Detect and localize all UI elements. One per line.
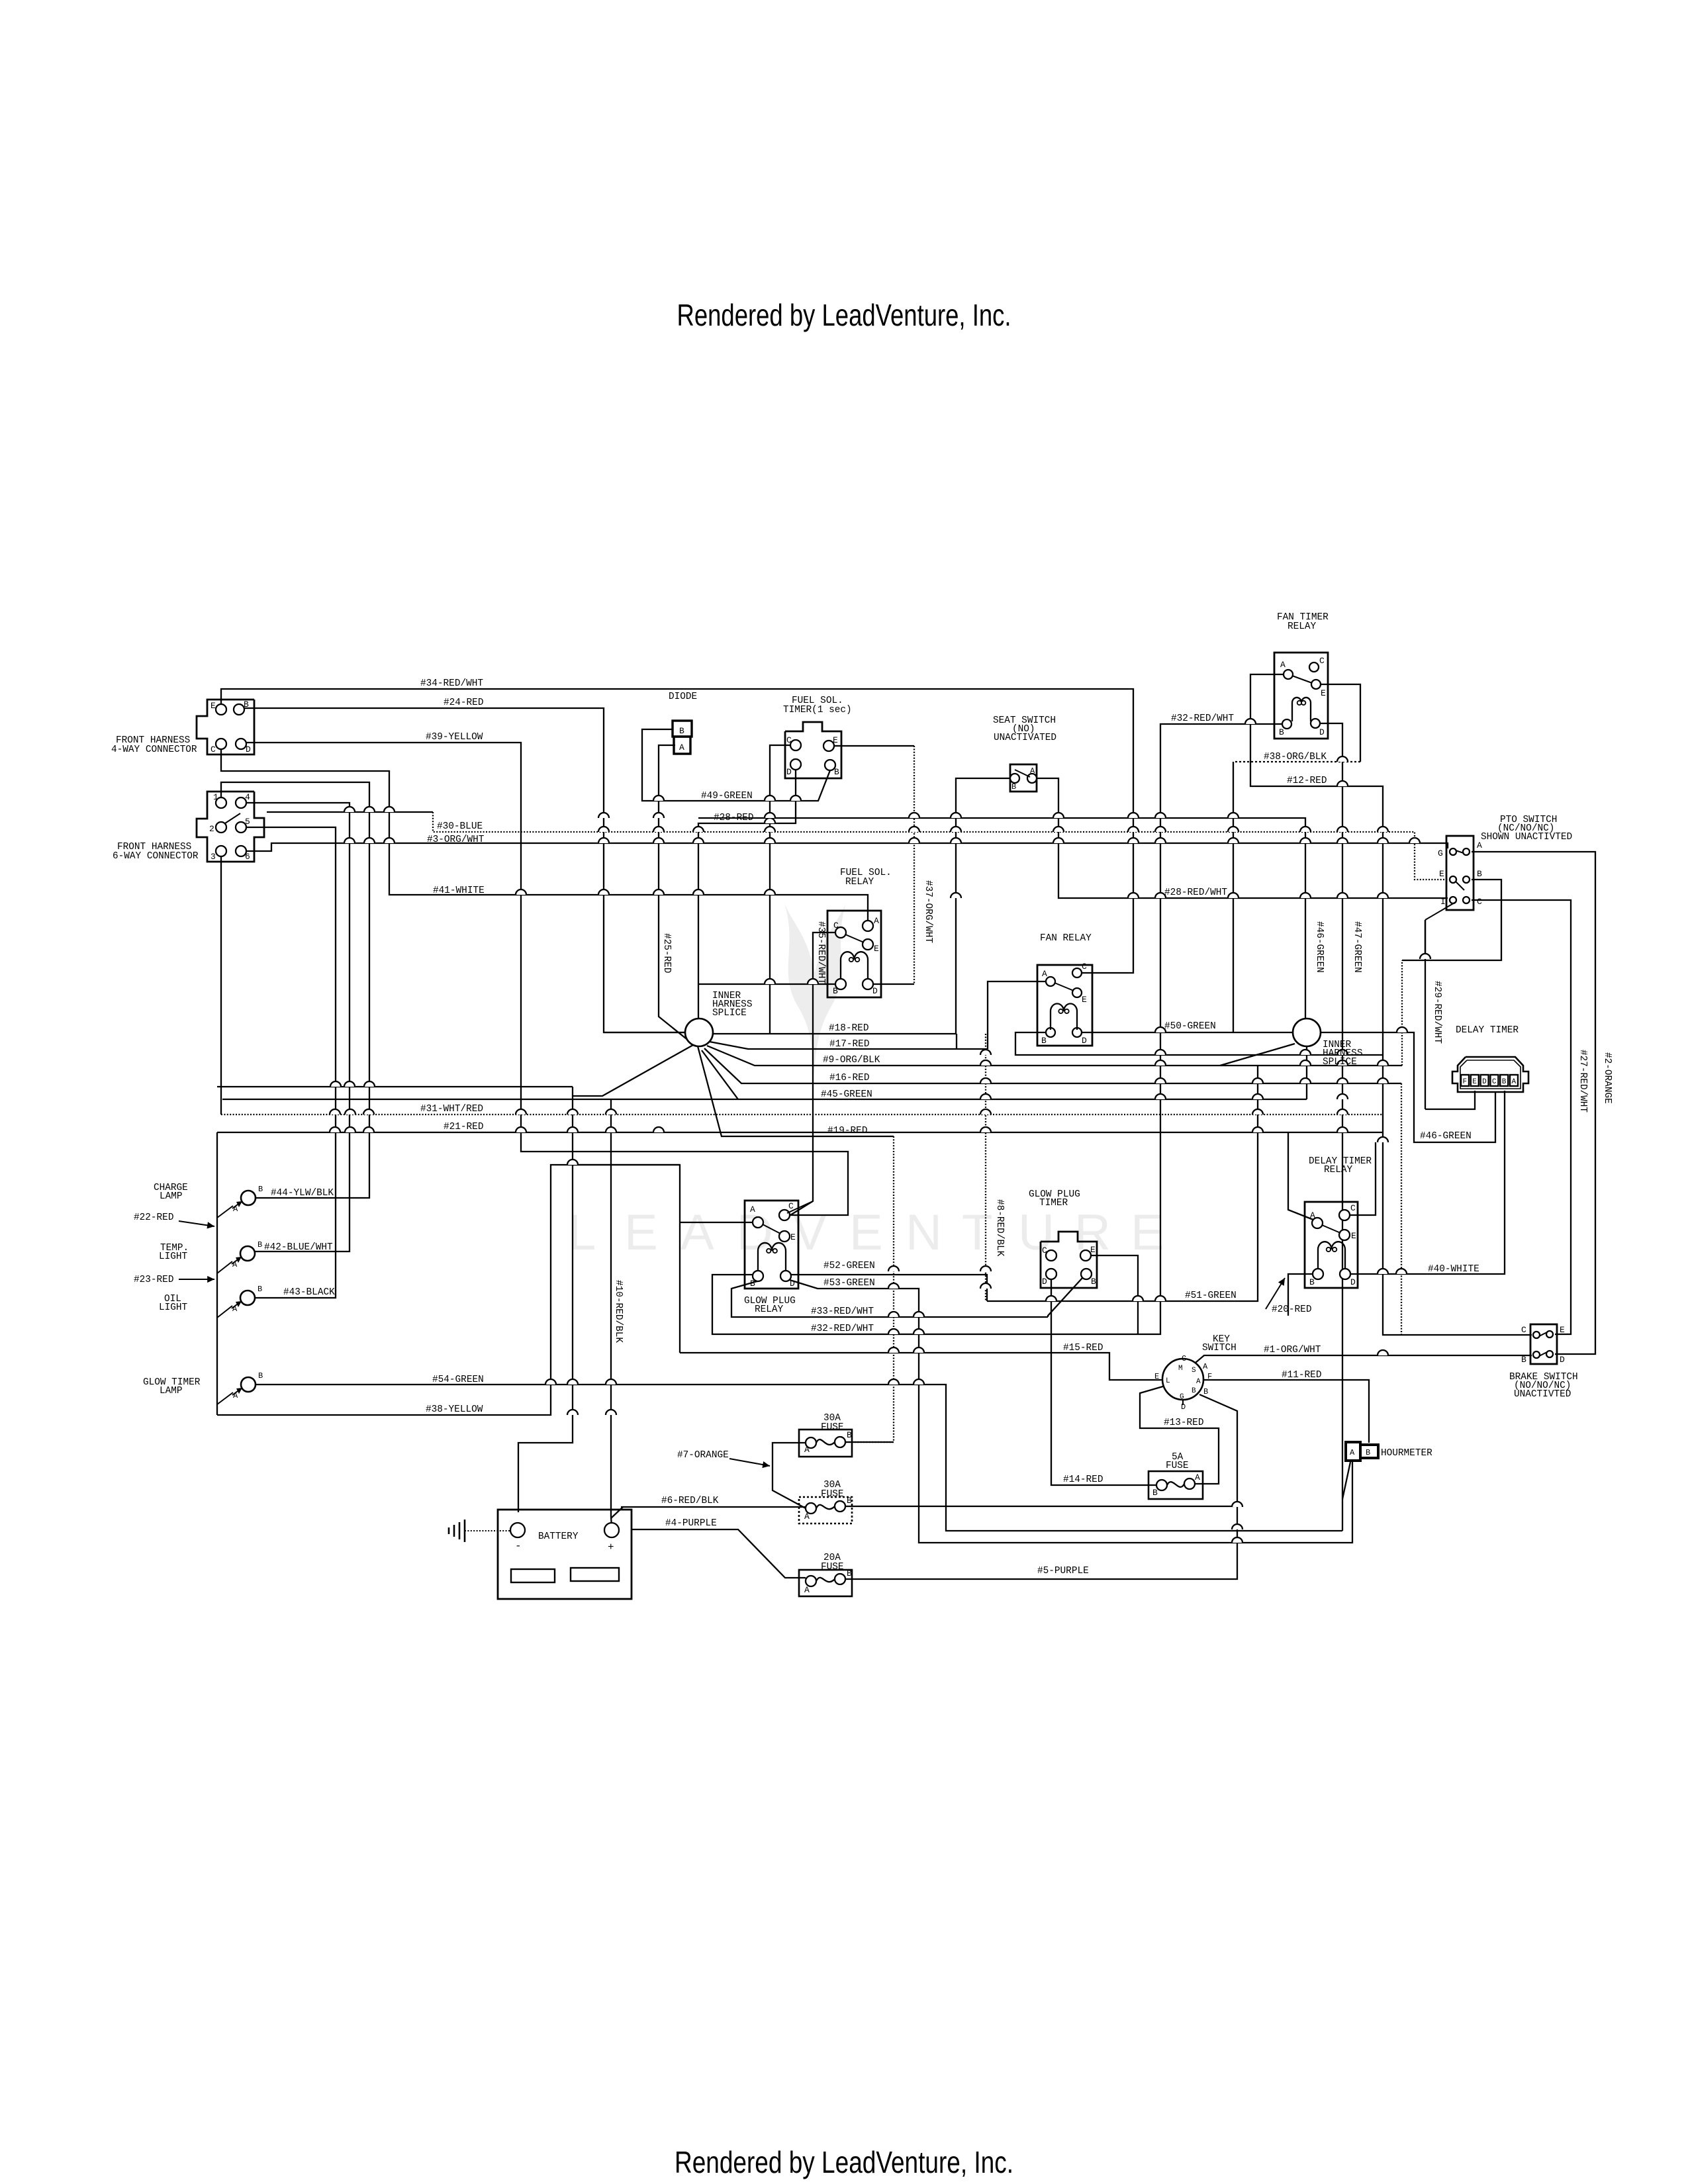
brake switch: [1530, 1324, 1557, 1364]
svg-text:A: A: [1350, 1448, 1355, 1457]
wire fan timer relay B to #32-RED/WHT: [712, 724, 1282, 1334]
wire #9 splice2 diag: [1220, 1044, 1295, 1066]
svg-text:#28-RED/WHT: #28-RED/WHT: [1164, 887, 1227, 898]
svg-text:E: E: [849, 1205, 883, 1261]
wire glow plug relay C diag: [787, 1201, 813, 1213]
svg-text:SPLICE: SPLICE: [712, 1008, 747, 1019]
svg-text:3: 3: [211, 852, 216, 862]
svg-text:+: +: [608, 1541, 614, 1553]
svg-text:Rendered by LeadVenture, Inc.: Rendered by LeadVenture, Inc.: [675, 2145, 1013, 2179]
svg-text:#43-BLACK: #43-BLACK: [283, 1287, 335, 1298]
svg-text:SHOWN UNACTIVTED: SHOWN UNACTIVTED: [1481, 832, 1572, 842]
wire glow relay A feed: [680, 1222, 753, 1223]
wire #9-ORG/BLK riser: [1401, 960, 1403, 1066]
svg-text:D: D: [786, 767, 792, 777]
svg-text:#16-RED: #16-RED: [829, 1073, 869, 1083]
wire hop bumps: [330, 719, 1430, 1543]
svg-text:T: T: [962, 1205, 992, 1261]
svg-text:B: B: [1477, 869, 1482, 879]
svg-text:C: C: [1521, 1325, 1526, 1335]
glow timer lamp: [241, 1377, 256, 1392]
wire #21-RED: [217, 1132, 1383, 1133]
seat switch: [1010, 764, 1037, 792]
svg-text:A: A: [680, 1205, 714, 1261]
svg-text:D: D: [1482, 1078, 1487, 1086]
wire #16-RED riser to brake C: [1401, 1083, 1402, 1335]
wire seat switch A to #28-RED/WHT: [1037, 778, 1448, 898]
svg-text:N: N: [906, 1205, 942, 1261]
wire fuel sol timer C: [770, 745, 790, 1034]
diode: [673, 721, 692, 737]
svg-text:RELAY: RELAY: [755, 1304, 784, 1315]
svg-text:#41-WHITE: #41-WHITE: [433, 886, 485, 896]
svg-text:#28-RED: #28-RED: [714, 813, 753, 823]
svg-text:RELAY: RELAY: [1288, 621, 1317, 632]
wire y1760 link: [573, 1164, 680, 1165]
svg-text:C: C: [1492, 1078, 1497, 1086]
decorative flame logo: [784, 903, 846, 1077]
svg-text:B: B: [1152, 1488, 1158, 1498]
wire #29 jog to PTO B: [1402, 880, 1501, 960]
svg-text:B: B: [1011, 782, 1016, 792]
svg-text:6-WAY CONNECTOR: 6-WAY CONNECTOR: [113, 851, 199, 862]
wire #19-RED: [697, 1044, 894, 1136]
svg-text:B: B: [847, 1496, 852, 1506]
svg-text:FUSE: FUSE: [1166, 1461, 1189, 1471]
svg-text:#33-RED/WHT: #33-RED/WHT: [811, 1306, 874, 1317]
svg-text:#39-YELLOW: #39-YELLOW: [426, 732, 483, 743]
wire #30-BLUE: [433, 812, 1448, 880]
svg-text:SPLICE: SPLICE: [1323, 1057, 1357, 1068]
wire lamp A bus: [216, 1132, 218, 1415]
svg-text:#54-GREEN: #54-GREEN: [432, 1375, 484, 1385]
wire key switch B to #5-PURPLE: [845, 1394, 1237, 1579]
wire fan timer relay D to #47-GREEN: [1321, 723, 1342, 1531]
svg-text:D: D: [790, 1279, 795, 1289]
wire #18-RED: [712, 1033, 956, 1034]
wire #46-GREEN delay relay C leg: [1350, 1142, 1376, 1215]
svg-text:B: B: [258, 1285, 262, 1294]
wire conn6 pin 3 drop: [220, 856, 222, 1115]
wire temp lamp A diag: [217, 1261, 232, 1273]
wire #30-BLUE head: [267, 811, 433, 813]
svg-text:#12-RED: #12-RED: [1287, 776, 1327, 786]
connector front harness 6-way: [197, 792, 264, 862]
wire ground bus to battery minus: [518, 1087, 573, 1512]
wire splice1 down: [573, 1045, 693, 1096]
wire #17-RED: [710, 1042, 988, 1049]
svg-text:TIMER(1 sec): TIMER(1 sec): [783, 705, 852, 715]
wire fan relay A feed: [988, 981, 1046, 1049]
wire #6-RED/BLK: [621, 1506, 806, 1508]
svg-text:-: -: [515, 1540, 522, 1552]
wire #9-ORG/BLK: [707, 1046, 1402, 1066]
wire #16-RED: [704, 1048, 1401, 1083]
wire #45-GREEN: [222, 1099, 1307, 1100]
wire delay timer E stub: [1425, 1091, 1475, 1109]
svg-text:#30-BLUE: #30-BLUE: [437, 821, 483, 832]
svg-text:E: E: [1082, 995, 1087, 1005]
svg-text:RELAY: RELAY: [845, 877, 874, 887]
wire splice1 left: [604, 1032, 686, 1033]
svg-text:B: B: [847, 1430, 852, 1440]
wire fan relay B out: [1015, 1032, 1383, 1055]
wire 30A fuse B to #19 drop: [845, 1441, 894, 1443]
wire fan relay D to #50-GREEN: [1082, 1032, 1292, 1033]
svg-text:DELAY TIMER: DELAY TIMER: [1456, 1025, 1519, 1036]
svg-text:#50-GREEN: #50-GREEN: [1164, 1021, 1216, 1032]
svg-text:#29-RED/WHT: #29-RED/WHT: [1432, 981, 1442, 1044]
wire glow plug relay D to #52-GREEN: [791, 1275, 987, 1301]
wire #13-RED: [1140, 1386, 1219, 1484]
delay timer connector: [1452, 1057, 1528, 1092]
svg-text:#32-RED/WHT: #32-RED/WHT: [1171, 713, 1234, 724]
svg-text:B: B: [244, 700, 249, 709]
svg-text:B: B: [258, 1371, 263, 1381]
svg-text:I: I: [1440, 897, 1446, 907]
svg-text:E: E: [1321, 688, 1326, 698]
svg-text:B: B: [1521, 1355, 1526, 1365]
svg-text:#4-PURPLE: #4-PURPLE: [665, 1518, 717, 1529]
svg-text:E: E: [1560, 1325, 1565, 1335]
svg-text:#18-RED: #18-RED: [829, 1023, 868, 1034]
wire splice2 right to #46-GREEN: [1321, 1032, 1495, 1142]
fuse 5A: [1149, 1471, 1203, 1499]
svg-text:D: D: [1350, 1277, 1356, 1287]
svg-text:#38-YELLOW: #38-YELLOW: [426, 1404, 483, 1415]
svg-text:E: E: [211, 701, 216, 711]
wire glow plug relay D to #53-GREEN: [790, 1280, 1352, 1543]
svg-text:#44-YLW/BLK: #44-YLW/BLK: [271, 1188, 334, 1199]
svg-text:A: A: [1512, 1078, 1517, 1086]
svg-text:C: C: [1082, 962, 1087, 972]
svg-text:#31-WHT/RED: #31-WHT/RED: [420, 1104, 483, 1115]
svg-text:E: E: [1439, 869, 1444, 879]
pto switch: [1446, 836, 1474, 910]
svg-text:BATTERY: BATTERY: [538, 1531, 579, 1542]
glow plug timer: [1041, 1232, 1097, 1288]
svg-text:#38-ORG/BLK: #38-ORG/BLK: [1264, 752, 1327, 762]
svg-text:2: 2: [209, 824, 214, 834]
svg-text:D: D: [246, 745, 251, 754]
wire charge lamp A diag: [217, 1206, 233, 1218]
wire PTO A to #2-ORANGE: [1472, 852, 1595, 1354]
svg-text:E: E: [1131, 1205, 1164, 1261]
svg-text:#45-GREEN: #45-GREEN: [821, 1089, 872, 1100]
wire seat area run to splice2 #46-GREEN: [698, 818, 1305, 1019]
svg-text:A: A: [1203, 1362, 1208, 1371]
wire #20-RED stub: [1288, 1274, 1313, 1316]
svg-text:A: A: [1195, 1473, 1200, 1482]
svg-text:D: D: [1042, 1277, 1047, 1287]
svg-text:E: E: [1090, 1245, 1096, 1255]
svg-text:B: B: [1203, 1387, 1208, 1396]
wire fuel sol timer E out: [834, 745, 914, 747]
wire 30A fuse2 B out: [845, 1506, 1235, 1507]
svg-text:C: C: [211, 745, 216, 754]
svg-text:A: A: [1280, 660, 1286, 670]
wire glow plug timer B arm: [1048, 1278, 1082, 1317]
svg-text:#34-RED/WHT: #34-RED/WHT: [420, 678, 483, 689]
wire #29-RED/WHT: [1425, 920, 1426, 959]
svg-text:4: 4: [245, 792, 250, 802]
svg-text:FUSE: FUSE: [821, 1562, 844, 1572]
svg-text:D: D: [1319, 727, 1325, 737]
wire fan timer relay E out: [1321, 684, 1360, 762]
svg-text:A: A: [233, 1391, 238, 1400]
svg-text:#52-GREEN: #52-GREEN: [823, 1261, 875, 1271]
svg-text:A: A: [1030, 766, 1035, 776]
wire #37-ORG/WHT drop: [914, 746, 915, 984]
svg-text:A: A: [874, 916, 879, 926]
svg-text:SWITCH: SWITCH: [1202, 1343, 1237, 1353]
svg-text:LIGHT: LIGHT: [159, 1251, 188, 1262]
fan timer relay: [1274, 653, 1328, 739]
wire splice2 bottom stub: [1306, 1046, 1307, 1099]
wire glow plug timer E drop: [1091, 1255, 1138, 1334]
svg-text:FAN RELAY: FAN RELAY: [1040, 933, 1092, 944]
svg-text:A: A: [679, 743, 684, 752]
svg-text:4-WAY CONNECTOR: 4-WAY CONNECTOR: [111, 745, 197, 755]
svg-text:#53-GREEN: #53-GREEN: [823, 1278, 875, 1289]
svg-text:DIODE: DIODE: [669, 692, 697, 702]
svg-text:#6-RED/BLK: #6-RED/BLK: [661, 1496, 719, 1506]
svg-text:UNACTIVATED: UNACTIVATED: [994, 733, 1056, 743]
svg-text:LIGHT: LIGHT: [159, 1302, 188, 1313]
svg-text:A: A: [1310, 1210, 1315, 1220]
svg-text:F: F: [1463, 1078, 1468, 1086]
svg-text:C: C: [1477, 897, 1482, 907]
svg-text:B: B: [258, 1240, 262, 1250]
wire #11-RED: [1203, 1380, 1369, 1443]
wire oil lamp A diag: [217, 1306, 232, 1318]
svg-text:B: B: [834, 767, 839, 777]
wire diode A to splice #25-RED: [659, 745, 692, 1044]
svg-text:#35-RED/WHT: #35-RED/WHT: [816, 921, 826, 984]
svg-text:#14-RED: #14-RED: [1063, 1475, 1103, 1485]
wire glow lamp A diag: [217, 1392, 233, 1404]
svg-text:C: C: [788, 1201, 794, 1211]
svg-text:#11-RED: #11-RED: [1282, 1370, 1321, 1381]
svg-text:6: 6: [245, 852, 250, 862]
svg-text:B: B: [1091, 1277, 1096, 1287]
wire #24-RED: [244, 708, 687, 1032]
svg-text:G: G: [1438, 848, 1443, 858]
wire #8-RED/BLK: [985, 1034, 986, 1301]
svg-text:C: C: [1350, 1203, 1356, 1213]
svg-text:#46-GREEN: #46-GREEN: [1314, 921, 1325, 973]
wire #38-ORG/BLK: [1233, 761, 1360, 762]
wire battery plus to #10-RED/BLK: [611, 1099, 612, 1526]
svg-text:#1-ORG/WHT: #1-ORG/WHT: [1264, 1345, 1321, 1355]
battery: [498, 1510, 632, 1599]
svg-text:#21-RED: #21-RED: [444, 1122, 483, 1132]
ground symbol: [448, 1527, 450, 1534]
svg-text:#17-RED: #17-RED: [829, 1039, 869, 1050]
oil light lamp: [240, 1291, 255, 1305]
wire fan timer relay A to #12-RED: [1250, 674, 1532, 1335]
wire diode B to #49-GREEN to fuel sol timer B: [642, 729, 830, 801]
svg-text:B: B: [847, 1569, 852, 1578]
svg-text:S: S: [1192, 1367, 1196, 1375]
svg-text:L: L: [1166, 1377, 1170, 1385]
fuel sol timer: [785, 722, 841, 778]
wire #51-GREEN riser: [987, 1066, 1258, 1301]
wire #7-ORANGE: [773, 1443, 806, 1508]
wire #4-PURPLE: [632, 1529, 806, 1578]
svg-text:HOURMETER: HOURMETER: [1381, 1448, 1432, 1459]
svg-text:RELAY: RELAY: [1324, 1165, 1353, 1175]
svg-text:#42-BLUE/WHT: #42-BLUE/WHT: [264, 1242, 333, 1253]
svg-text:#20-RED: #20-RED: [1272, 1304, 1311, 1315]
svg-text:E: E: [833, 735, 838, 745]
svg-text:A: A: [233, 1205, 238, 1214]
svg-text:A: A: [750, 1205, 755, 1214]
svg-text:B: B: [1279, 727, 1284, 737]
decorative watermark: [568, 1205, 1164, 1261]
wire PTO C to #27-RED/WHT: [1472, 900, 1571, 1334]
glow plug relay: [745, 1201, 798, 1289]
wire glow plug relay B arm to #33-RED/WHT: [731, 1280, 1048, 1317]
wire conn4 pin C to #41-WHITE: [221, 749, 868, 921]
key switch: [1162, 1359, 1203, 1400]
svg-text:#3-ORG/WHT: #3-ORG/WHT: [427, 835, 485, 845]
svg-text:#13-RED: #13-RED: [1164, 1418, 1203, 1428]
svg-text:TIMER: TIMER: [1039, 1198, 1068, 1208]
svg-text:E: E: [1351, 1231, 1356, 1241]
wire #19 drop to 30A fuse: [845, 1136, 894, 1442]
svg-text:#22-RED: #22-RED: [134, 1212, 173, 1223]
svg-text:C: C: [1042, 1246, 1047, 1255]
svg-text:#32-RED/WHT: #32-RED/WHT: [811, 1324, 874, 1334]
connector front harness 4-way: [197, 700, 254, 754]
svg-text:B: B: [679, 726, 684, 736]
svg-text:M: M: [1178, 1365, 1183, 1373]
svg-text:E: E: [874, 944, 879, 954]
svg-text:D: D: [1560, 1355, 1565, 1365]
wire fuel sol relay C to glow plug relay C #35-RED/WHT: [787, 933, 835, 1217]
svg-text:B: B: [258, 1185, 263, 1194]
wire #18 jog: [956, 1034, 957, 1049]
svg-text:E: E: [624, 1205, 658, 1261]
wire fuel sol timer D to #28-RED: [698, 770, 796, 1019]
svg-text:C: C: [1182, 1354, 1186, 1363]
svg-text:#27-RED/WHT: #27-RED/WHT: [1577, 1050, 1588, 1113]
svg-text:A: A: [1196, 1378, 1201, 1386]
wire conn6 pin 5 to #43-BLACK: [246, 827, 336, 1298]
svg-text:B: B: [750, 1279, 755, 1289]
wire PTO I arm drop: [1425, 920, 1426, 1109]
svg-text:E: E: [790, 1232, 796, 1242]
svg-text:A: A: [232, 1260, 238, 1269]
inner harness splice right: [1293, 1019, 1321, 1046]
svg-text:#40-WHITE: #40-WHITE: [1428, 1264, 1479, 1275]
svg-text:A: A: [1042, 969, 1047, 979]
wire splice1 to #45-GREEN diag: [702, 1050, 738, 1099]
temp light lamp: [240, 1246, 255, 1261]
svg-text:C: C: [786, 735, 792, 745]
svg-text:UNACTIVTED: UNACTIVTED: [1514, 1389, 1571, 1400]
fuel sol relay: [827, 911, 881, 997]
svg-text:A: A: [232, 1304, 238, 1314]
wire lamp box top: [217, 1086, 573, 1087]
svg-text:#37-ORG/WHT: #37-ORG/WHT: [923, 880, 933, 943]
svg-text:B: B: [1366, 1448, 1370, 1457]
svg-text:D: D: [872, 986, 878, 996]
wire #38-ORG/BLK drop: [1233, 762, 1234, 1032]
svg-text:A: A: [804, 1445, 810, 1455]
key switch terminal stubs: [1157, 1379, 1162, 1381]
svg-text:B: B: [1309, 1277, 1315, 1287]
svg-text:#10-RED/BLK: #10-RED/BLK: [613, 1280, 624, 1343]
svg-text:LAMP: LAMP: [160, 1386, 183, 1396]
svg-text:LAMP: LAMP: [160, 1191, 183, 1202]
wire conn6 pin 4 to #42-BLUE/WHT: [246, 803, 350, 1251]
wire conn6 pin 6 to #3-ORG/WHT: [246, 843, 1448, 851]
svg-text:1: 1: [213, 792, 218, 802]
svg-text:#49-GREEN: #49-GREEN: [701, 791, 753, 801]
svg-text:FUSE: FUSE: [821, 1489, 844, 1500]
svg-text:#23-RED: #23-RED: [134, 1275, 173, 1285]
wire fuel sol relay D stub: [873, 983, 914, 985]
svg-text:5: 5: [245, 817, 250, 827]
svg-text:C: C: [833, 921, 839, 931]
wire #15-RED: [680, 1353, 1161, 1380]
svg-text:B: B: [1502, 1078, 1507, 1086]
charge lamp: [241, 1191, 256, 1205]
svg-text:#24-RED: #24-RED: [444, 698, 483, 708]
svg-text:#5-PURPLE: #5-PURPLE: [1037, 1566, 1089, 1576]
svg-text:A: A: [804, 1585, 810, 1595]
svg-text:A: A: [804, 1512, 810, 1522]
hourmeter: [1346, 1442, 1360, 1461]
fan relay: [1037, 965, 1092, 1046]
wire #40-WHITE: [1350, 1091, 1505, 1274]
svg-text:#47-GREEN: #47-GREEN: [1352, 921, 1362, 973]
wire seat switch B drop: [956, 778, 1010, 1034]
svg-text:#25-RED: #25-RED: [661, 933, 672, 973]
svg-text:C: C: [1319, 656, 1325, 666]
svg-text:#19-RED: #19-RED: [827, 1126, 867, 1136]
svg-text:B: B: [1192, 1387, 1196, 1395]
wire #34-RED/WHT: [221, 689, 1133, 973]
svg-text:FUSE: FUSE: [821, 1422, 844, 1433]
svg-text:D: D: [1082, 1036, 1087, 1046]
svg-text:#9-ORG/BLK: #9-ORG/BLK: [823, 1055, 880, 1066]
svg-text:E: E: [1472, 1078, 1477, 1086]
wire #31-WHT/RED: [221, 1114, 1383, 1115]
svg-text:B: B: [1041, 1036, 1047, 1046]
fuse 20A: [799, 1570, 852, 1596]
svg-text:B: B: [833, 986, 838, 996]
delay timer relay: [1305, 1202, 1358, 1288]
svg-text:#15-RED: #15-RED: [1063, 1343, 1103, 1353]
svg-text:#2-ORANGE: #2-ORANGE: [1602, 1052, 1613, 1104]
wire battery plus diag: [611, 1507, 623, 1518]
svg-text:#46-GREEN: #46-GREEN: [1420, 1131, 1472, 1142]
svg-text:#7-ORANGE: #7-ORANGE: [677, 1450, 729, 1461]
wire delay timer relay A diag: [1288, 1132, 1313, 1220]
svg-text:Rendered by LeadVenture, Inc.: Rendered by LeadVenture, Inc.: [677, 298, 1011, 332]
svg-text:#8-RED/BLK: #8-RED/BLK: [994, 1199, 1005, 1257]
wire glow plug timer D to #14-RED: [1051, 1279, 1156, 1485]
wire conn6 pin 1 to #44-YLW/BLK: [221, 782, 369, 1198]
wire #54-GREEN: [256, 1385, 1342, 1531]
wire #39-YELLOW: [244, 743, 848, 1215]
wire hourmeter A diag: [1342, 1462, 1350, 1499]
inner harness splice left: [685, 1019, 713, 1046]
svg-text:#51-GREEN: #51-GREEN: [1185, 1291, 1237, 1301]
